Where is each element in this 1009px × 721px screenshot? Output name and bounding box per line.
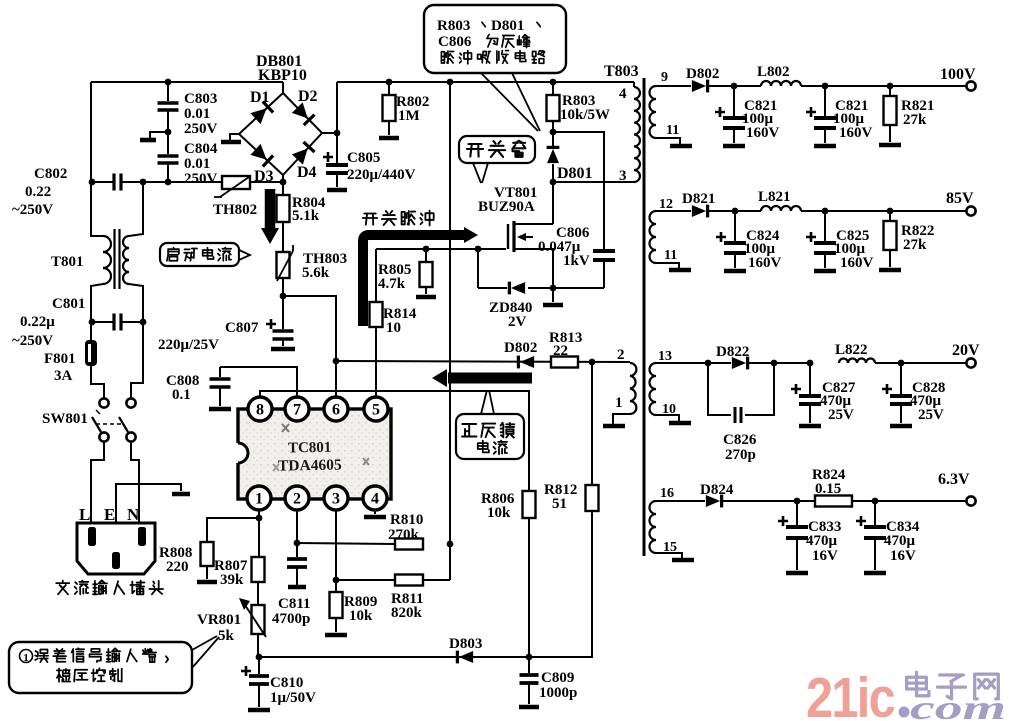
svg-text:C803: C803 <box>184 91 217 107</box>
diode D821 <box>692 205 706 217</box>
resistor R804 <box>282 182 284 195</box>
svg-text:E: E <box>104 505 115 524</box>
IC pin 6 <box>324 397 348 421</box>
svg-text:160V: 160V <box>839 125 873 141</box>
capacitor C810 <box>258 657 260 674</box>
svg-text:TDA4605: TDA4605 <box>278 457 342 475</box>
svg-text:C801: C801 <box>52 296 85 312</box>
callout snubber explanation <box>424 5 566 73</box>
svg-text:27k: 27k <box>903 112 927 128</box>
svg-text:C805: C805 <box>347 150 380 166</box>
wire left rail upper <box>91 82 103 236</box>
capacitor C828 <box>900 363 902 394</box>
ground winding 12-11 <box>669 268 691 273</box>
resistor R822 <box>887 208 894 215</box>
capacitor C826 branch <box>708 363 731 415</box>
capacitor C805 <box>336 133 338 163</box>
svg-text:SW801: SW801 <box>42 411 88 427</box>
node A snubber junction <box>550 129 557 136</box>
wire AC top bus <box>91 81 283 83</box>
svg-text:220μ/25V: 220μ/25V <box>158 337 219 353</box>
node source junction <box>550 285 557 292</box>
transistor VT801 BUZ90A MOSFET <box>552 182 554 224</box>
wire earth pin to ground <box>116 484 181 523</box>
wire AC line row <box>92 181 114 183</box>
wire 20V rail <box>656 362 708 364</box>
svg-text:270p: 270p <box>725 447 756 463</box>
switch SW801 <box>99 398 108 407</box>
svg-text:D801: D801 <box>557 165 593 182</box>
ground pin4 <box>374 510 376 514</box>
svg-text:C809: C809 <box>541 670 574 686</box>
resistor R809 <box>330 592 343 618</box>
svg-text:com: com <box>910 690 1006 721</box>
capacitor C808 <box>219 367 221 377</box>
svg-text:0.22μ: 0.22μ <box>20 314 55 330</box>
svg-text:20V: 20V <box>952 342 980 359</box>
svg-text:16V: 16V <box>890 548 916 564</box>
svg-text:25V: 25V <box>918 407 944 423</box>
svg-text:10k: 10k <box>349 608 373 624</box>
resistor R812 <box>591 484 593 486</box>
svg-text:7: 7 <box>293 402 301 419</box>
svg-text:R803: R803 <box>437 18 470 34</box>
terminal 85V <box>890 210 966 212</box>
svg-text:L822: L822 <box>835 342 868 358</box>
svg-text:3: 3 <box>332 491 340 508</box>
svg-text:250V: 250V <box>184 121 218 137</box>
svg-text:160V: 160V <box>840 255 874 271</box>
wire 100V rail <box>656 85 691 87</box>
svg-text:D824: D824 <box>700 482 734 498</box>
svg-text:D822: D822 <box>716 344 749 360</box>
capacitor C804 <box>167 132 169 154</box>
svg-text:T801: T801 <box>51 254 84 270</box>
svg-text:TC801: TC801 <box>288 440 332 457</box>
svg-text:4: 4 <box>371 491 379 508</box>
svg-text:F801: F801 <box>44 351 76 367</box>
svg-text:0.01: 0.01 <box>184 156 210 172</box>
svg-text:10: 10 <box>386 320 401 336</box>
svg-text:~250V: ~250V <box>12 202 53 218</box>
transformer T801 <box>103 236 111 284</box>
callout startup current <box>160 243 239 266</box>
capacitor C801 <box>114 314 121 331</box>
svg-text:11: 11 <box>666 123 679 138</box>
resistor R810 <box>395 539 423 550</box>
svg-text:16: 16 <box>660 486 674 501</box>
wire switch to plug <box>91 442 104 523</box>
resistor R806 <box>523 491 536 518</box>
wire 85V rail <box>656 210 691 212</box>
svg-text:N: N <box>127 505 140 524</box>
svg-text:VR801: VR801 <box>197 612 241 628</box>
svg-text:27k: 27k <box>903 237 927 253</box>
svg-text:0.22: 0.22 <box>25 184 51 200</box>
diode D1 <box>250 108 266 124</box>
svg-text:1μ/50V: 1μ/50V <box>270 690 316 706</box>
svg-text:0.01: 0.01 <box>184 106 210 122</box>
svg-text:270k: 270k <box>388 527 420 543</box>
svg-text:11: 11 <box>664 248 677 263</box>
wire 300V line down <box>449 82 451 544</box>
ground MOSFET source <box>552 288 554 302</box>
svg-text:L821: L821 <box>758 189 791 205</box>
svg-text:2V: 2V <box>508 314 527 330</box>
diode D4 <box>292 149 308 165</box>
svg-text:C807: C807 <box>225 320 259 336</box>
svg-text:820k: 820k <box>391 605 423 621</box>
svg-text:C811: C811 <box>278 596 311 612</box>
svg-text:39k: 39k <box>220 572 244 588</box>
svg-text:8: 8 <box>256 402 264 419</box>
ground earth <box>172 492 190 497</box>
label AC input plug <box>56 581 69 595</box>
terminal 6.3V <box>966 496 975 505</box>
svg-text:16V: 16V <box>812 548 838 564</box>
svg-text:0.15: 0.15 <box>815 481 841 497</box>
svg-text:1: 1 <box>615 395 623 411</box>
thermistor TH803 <box>282 222 284 252</box>
svg-text:0.1: 0.1 <box>172 387 191 403</box>
svg-text:T803: T803 <box>604 63 639 80</box>
wire pin7 to C808 <box>220 367 297 397</box>
svg-text:160V: 160V <box>746 125 780 141</box>
svg-text:5.6k: 5.6k <box>302 265 330 281</box>
wire pin3 node <box>335 510 337 592</box>
capacitor C803 <box>167 82 169 101</box>
ground C805 <box>327 188 347 193</box>
diode D822 <box>708 362 731 364</box>
thick arrow positive feedback <box>448 373 532 384</box>
svg-text:L802: L802 <box>757 64 790 80</box>
wire 6.3V rail <box>656 500 705 502</box>
thermistor TH802 <box>222 176 250 189</box>
svg-text:470μ: 470μ <box>806 533 838 549</box>
svg-text:D4: D4 <box>297 164 317 181</box>
svg-text:5.1k: 5.1k <box>292 208 320 224</box>
svg-text:D803: D803 <box>449 636 482 652</box>
svg-text:D1: D1 <box>250 89 270 106</box>
diode D3 <box>250 144 266 160</box>
svg-text:4700p: 4700p <box>272 611 310 627</box>
ground C803/C804 midpoint <box>165 129 172 136</box>
svg-text:D3: D3 <box>254 168 274 185</box>
diode D2 <box>292 102 308 118</box>
svg-text:C802: C802 <box>34 166 67 182</box>
terminal 100V <box>890 85 966 87</box>
ground feedback winding <box>603 424 625 429</box>
capacitor C821 first <box>733 86 735 116</box>
IC pin 5 <box>364 397 388 421</box>
svg-text:D821: D821 <box>682 191 715 207</box>
node C803 top junction <box>165 79 172 86</box>
wire DC+ bus 300V <box>337 81 634 83</box>
capacitor C824 <box>734 211 736 241</box>
svg-text:25V: 25V <box>828 407 854 423</box>
resistor R803 <box>552 82 554 95</box>
resistor R813 <box>551 357 578 368</box>
svg-text:D801: D801 <box>491 18 524 34</box>
svg-text:2: 2 <box>293 491 301 508</box>
capacitor C833 <box>796 501 798 525</box>
svg-text:KBP10: KBP10 <box>258 67 307 84</box>
potentiometer VR801 <box>257 582 259 605</box>
capacitor C809 <box>528 657 530 673</box>
svg-text:10k/5W: 10k/5W <box>560 107 610 123</box>
svg-text:6.3V: 6.3V <box>938 471 970 488</box>
svg-text:4.7k: 4.7k <box>378 276 406 292</box>
svg-text:BUZ90A: BUZ90A <box>478 199 535 215</box>
fuse F801 <box>85 340 97 366</box>
capacitor C807 <box>282 296 284 329</box>
transformer T803 core <box>643 78 646 556</box>
svg-text:C806: C806 <box>438 34 472 50</box>
T803 secondary winding pins 12-11 <box>650 211 657 263</box>
svg-text:1: 1 <box>255 491 263 508</box>
diode D801 <box>552 132 554 147</box>
svg-text:9: 9 <box>661 70 668 85</box>
ground winding 9-11 <box>670 144 692 149</box>
wire error feedback row <box>259 656 529 658</box>
callout positive feedback current <box>456 414 524 459</box>
transformer T803 primary winding pins 4-3 <box>633 82 635 87</box>
zener ZD840 <box>477 249 479 288</box>
capacitor C806 <box>553 132 604 249</box>
wire pin1 node <box>258 510 260 518</box>
AC plug body <box>77 523 155 574</box>
wire pin2 to R810 <box>297 543 395 544</box>
svg-text:1kV: 1kV <box>563 253 590 269</box>
IC pin 1 <box>247 486 271 510</box>
svg-text:51: 51 <box>552 496 567 512</box>
resistor R802 <box>388 82 390 95</box>
svg-text:470μ: 470μ <box>884 533 916 549</box>
wire pin6 feedback <box>336 361 630 362</box>
ground R802 <box>379 136 399 141</box>
svg-text:4: 4 <box>619 86 627 102</box>
svg-text:C810: C810 <box>270 675 303 691</box>
svg-text:D2: D2 <box>298 88 318 105</box>
diode D802 secondary <box>692 80 706 92</box>
T803 secondary winding pins 16-15 <box>650 501 657 553</box>
wire bridge right vertex to DC bus <box>322 132 337 134</box>
thick arrow switching pulse <box>363 235 464 326</box>
terminal 20V <box>966 358 975 367</box>
IC pin 2 <box>285 486 309 510</box>
IC pin 8 <box>248 397 272 421</box>
wire pin8 feedback line <box>260 391 529 491</box>
ground winding 13-10 <box>669 421 691 426</box>
feedback winding T803 pins 2-1 <box>591 362 593 363</box>
svg-text:160V: 160V <box>748 255 782 271</box>
ground winding 16-15 <box>672 558 694 563</box>
capacitor C802 <box>114 174 121 191</box>
callout switch tube <box>459 136 535 163</box>
svg-text:100V: 100V <box>940 66 976 83</box>
callout error signal note <box>9 642 192 693</box>
svg-text:220: 220 <box>166 559 189 575</box>
svg-text:R810: R810 <box>390 512 423 528</box>
svg-text:250V: 250V <box>184 171 218 187</box>
svg-text:D802: D802 <box>686 66 719 82</box>
T803 secondary winding pins 13-10 <box>650 363 657 415</box>
capacitor C821 second <box>824 86 826 116</box>
resistor R824 <box>815 496 852 507</box>
IC pin 3 <box>324 486 348 510</box>
resistor R814 <box>375 249 377 302</box>
inductor L822 <box>839 359 875 364</box>
svg-text:1000p: 1000p <box>539 685 577 701</box>
T803 secondary winding pins 9-11 <box>650 86 657 138</box>
svg-text:~250V: ~250V <box>12 333 53 349</box>
svg-text:1M: 1M <box>398 108 420 124</box>
svg-text:3A: 3A <box>54 368 73 384</box>
capacitor C825 <box>824 211 826 241</box>
svg-text:10k: 10k <box>487 505 511 521</box>
diode D803 <box>459 651 473 663</box>
svg-text:220μ/440V: 220μ/440V <box>347 167 416 183</box>
svg-text:5: 5 <box>372 402 380 419</box>
inductor L821 <box>761 206 801 211</box>
svg-text:D802: D802 <box>504 340 537 356</box>
svg-text:12: 12 <box>659 197 673 212</box>
inductor L802 <box>761 81 801 86</box>
capacitor C827 <box>807 360 814 367</box>
svg-text:21ic: 21ic <box>806 666 895 721</box>
wire R813 junction down to R812 <box>591 362 593 485</box>
wire gate <box>376 248 506 250</box>
svg-text:C804: C804 <box>184 141 218 157</box>
resistor R805 <box>423 246 430 253</box>
svg-text:6: 6 <box>332 402 340 419</box>
svg-text:5k: 5k <box>218 628 235 644</box>
svg-text:2: 2 <box>617 347 625 363</box>
wire pin2 node <box>296 510 298 543</box>
capacitor C811 <box>296 543 298 557</box>
resistor R807 <box>258 518 260 557</box>
svg-text:C826: C826 <box>723 432 757 448</box>
resistor R808 <box>207 518 259 542</box>
resistor R811 <box>449 544 451 580</box>
svg-text:22: 22 <box>553 343 568 359</box>
svg-text:85V: 85V <box>946 190 974 207</box>
wire TH803 to pin6 <box>282 278 284 296</box>
wire fuse to switch <box>91 366 104 398</box>
diode D824 <box>706 495 720 507</box>
thick arrow startup current <box>265 189 276 228</box>
ground bridge left vertex <box>230 134 239 140</box>
capacitor C834 <box>874 501 876 525</box>
label switching pulse <box>363 214 377 225</box>
diode D802 primary <box>520 356 534 368</box>
IC pin 4 <box>363 486 387 510</box>
svg-text:TH802: TH802 <box>213 202 257 218</box>
svg-text:L: L <box>79 505 90 524</box>
resistor R821 <box>887 83 894 90</box>
IC pin 7 <box>285 397 309 421</box>
svg-text:1: 1 <box>23 652 29 664</box>
svg-text:13: 13 <box>658 349 672 364</box>
